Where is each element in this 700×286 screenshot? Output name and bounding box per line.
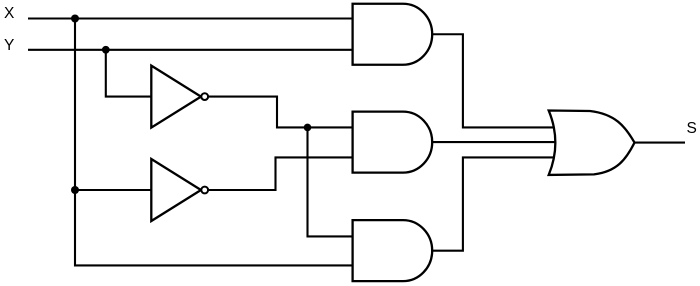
- svg-text:X: X: [4, 5, 15, 22]
- svg-text:S: S: [687, 120, 697, 137]
- svg-text:Y: Y: [4, 37, 14, 54]
